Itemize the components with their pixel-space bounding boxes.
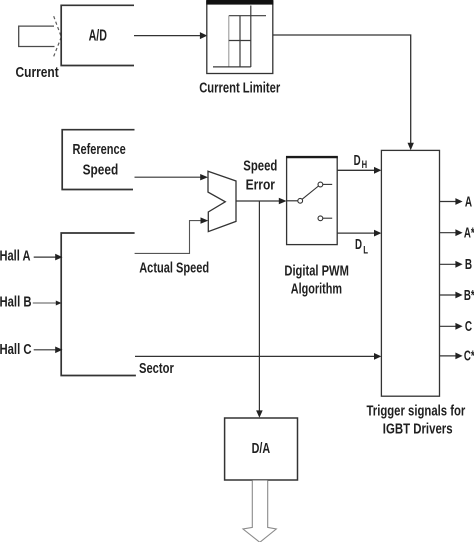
output wire B*: [440, 294, 457, 296]
output wire B: [440, 263, 457, 265]
switch icon upper throw circle: [318, 182, 323, 187]
wire A/D to Current Limiter: [134, 35, 201, 37]
input arrow Current (hollow shaft): [19, 26, 55, 46]
wire Speed Error comparator to PWM: [236, 200, 281, 202]
relay icon left gray vertical: [228, 16, 230, 67]
svg-text:Sector: Sector: [139, 361, 174, 377]
switch icon lower throw circle: [318, 216, 323, 221]
svg-text:A/D: A/D: [89, 28, 107, 45]
wire Hall B: [33, 302, 57, 304]
svg-text:H: H: [362, 159, 368, 171]
svg-text:B: B: [465, 257, 472, 273]
svg-text:Speed: Speed: [83, 161, 119, 178]
comparator (chevron mux): [208, 171, 236, 231]
wire Hall A: [34, 256, 56, 258]
svg-text:Current: Current: [16, 65, 59, 81]
svg-text:Reference: Reference: [73, 141, 126, 158]
block Reference Speed (open right side): [62, 130, 134, 190]
relay icon middle horizontal: [229, 40, 251, 42]
wire D_L: [337, 232, 375, 234]
svg-text:Algorithm: Algorithm: [291, 281, 342, 297]
wire Hall C: [34, 349, 56, 351]
relay icon top horizontal: [229, 15, 266, 17]
output wire C: [440, 325, 457, 327]
output wire A: [440, 201, 457, 203]
switch icon lever: [302, 186, 318, 199]
wire Actual Speed (stepped): [135, 221, 202, 254]
switch icon lower throw lead: [323, 217, 332, 219]
output wire A*: [440, 232, 457, 234]
wire reference speed to comparator: [135, 176, 202, 178]
switch icon upper throw lead: [323, 183, 332, 185]
svg-text:Current Limiter: Current Limiter: [199, 81, 280, 97]
svg-text:A: A: [465, 194, 473, 210]
svg-text:Hall B: Hall B: [0, 295, 32, 311]
wire limiter to trigger box (top route): [273, 35, 411, 145]
svg-text:A*: A*: [464, 226, 474, 242]
wire branch down to D/A: [258, 201, 260, 412]
svg-text:D: D: [354, 152, 361, 169]
relay icon bottom horizontal: [213, 66, 251, 68]
thick top bar of Current Limiter: [206, 0, 273, 5]
wire Sector: [135, 355, 375, 357]
output wire C*: [440, 355, 457, 357]
svg-text:C: C: [465, 319, 472, 335]
svg-text:D/A: D/A: [252, 440, 271, 457]
block Current Limiter: [207, 1, 273, 74]
svg-text:Actual Speed: Actual Speed: [139, 260, 209, 276]
svg-text:Hall A: Hall A: [0, 249, 31, 265]
svg-text:Digital PWM: Digital PWM: [284, 263, 349, 279]
block A/D (open right side): [61, 5, 134, 65]
svg-text:C*: C*: [464, 349, 474, 365]
svg-text:B*: B*: [464, 288, 474, 304]
block D/A: [225, 418, 298, 480]
dashed arrowhead of Current input: [54, 16, 62, 56]
block Digital PWM Algorithm: [287, 157, 338, 245]
relay icon mid vertical: [239, 16, 241, 67]
svg-text:D: D: [355, 236, 362, 253]
wire D_H: [337, 169, 375, 171]
svg-text:Trigger signals for: Trigger signals for: [367, 403, 466, 419]
svg-text:Hall C: Hall C: [0, 342, 32, 358]
svg-text:Speed: Speed: [243, 158, 277, 175]
switch icon input lead: [287, 200, 298, 202]
block Hall sensor (tall, open right side): [61, 233, 136, 376]
svg-text:L: L: [363, 245, 368, 257]
relay icon axis vertical: [250, 6, 252, 68]
switch icon common pole circle: [298, 198, 303, 203]
svg-text:IGBT Drivers: IGBT Drivers: [383, 421, 453, 437]
svg-text:Error: Error: [246, 177, 276, 194]
block Trigger signals for IGBT Drivers: [381, 150, 439, 396]
hollow output arrow below D/A: [243, 480, 276, 542]
thick top edge of PWM block: [286, 156, 338, 158]
